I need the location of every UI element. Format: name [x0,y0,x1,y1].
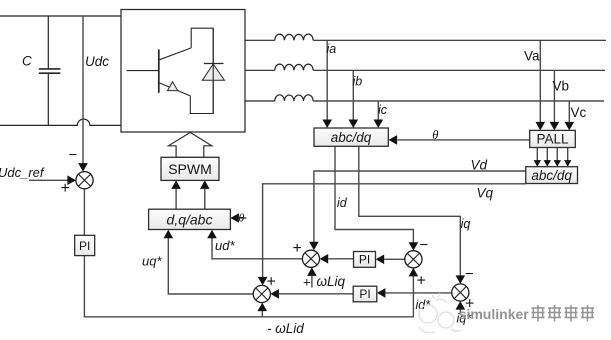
svg-text:abc/dq: abc/dq [331,130,372,145]
svg-text:Vb: Vb [553,79,570,94]
svg-text:Vc: Vc [571,105,587,120]
svg-text:+: + [303,275,311,290]
svg-text:uq*: uq* [142,254,162,269]
svg-text:ud*: ud* [215,238,235,253]
svg-text:ωLiq: ωLiq [317,274,346,289]
svg-text:+: + [61,180,70,197]
svg-text:PI: PI [79,239,90,253]
svg-text:PALL: PALL [536,132,569,147]
svg-text:+: + [417,273,426,290]
svg-text:Udc: Udc [85,54,109,69]
svg-text:+: + [267,274,276,291]
svg-text:C: C [22,54,32,69]
svg-text:iq: iq [461,217,471,231]
svg-text:−: − [420,237,429,254]
svg-text:SPWM: SPWM [168,161,212,177]
svg-text:ic: ic [378,103,388,117]
svg-text:simulinker: simulinker [459,306,530,322]
svg-text:+: + [293,240,302,257]
svg-text:θ: θ [239,210,245,224]
svg-text:−: − [465,266,474,283]
svg-text:- ωLid: - ωLid [267,321,304,336]
svg-text:Vq: Vq [477,185,494,200]
svg-text:ib: ib [353,75,363,89]
svg-text:Va: Va [524,49,540,64]
svg-text:−: − [69,147,78,164]
svg-text:d,q/abc: d,q/abc [167,212,213,228]
svg-text:PI: PI [359,287,370,301]
svg-text:PI: PI [359,253,370,267]
svg-text:Vd: Vd [471,157,488,172]
svg-text:ia: ia [327,42,337,56]
svg-text:abc/dq: abc/dq [531,168,572,183]
svg-text:Udc_ref: Udc_ref [0,165,45,180]
svg-text:id: id [337,196,348,210]
svg-text:θ: θ [432,128,438,142]
